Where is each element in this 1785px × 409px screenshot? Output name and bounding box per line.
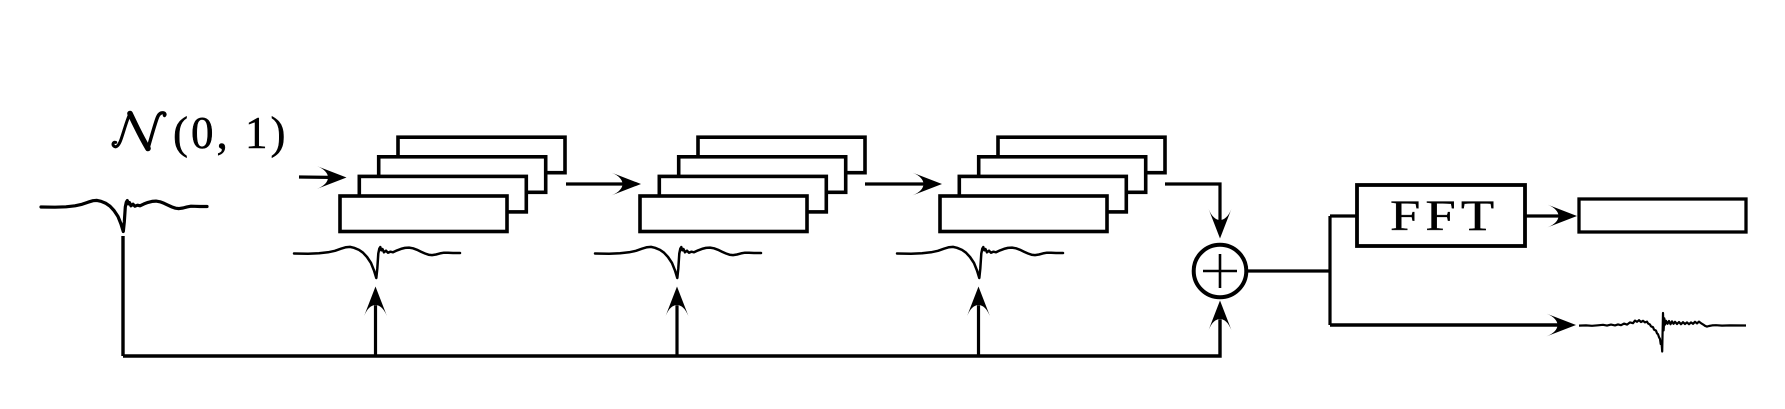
svg-text:FFT: FFT: [1390, 192, 1499, 240]
svg-text:(0, 1): (0, 1): [173, 108, 288, 158]
